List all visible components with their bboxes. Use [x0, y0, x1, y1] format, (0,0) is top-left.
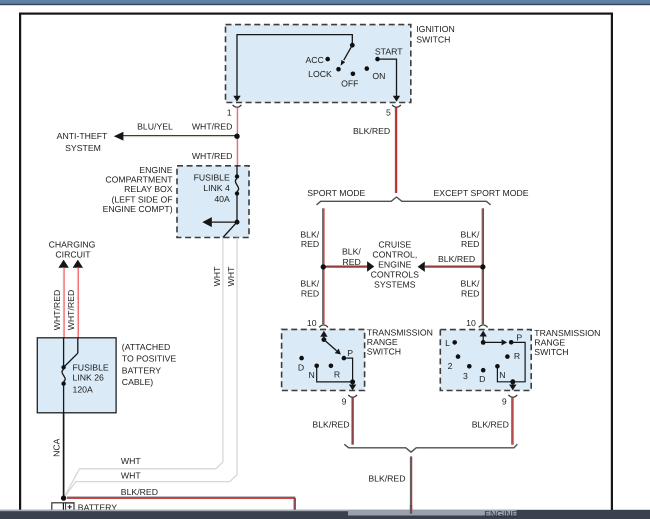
- transmission range switch S2 box: [440, 330, 531, 391]
- svg-text:ACC: ACC: [305, 55, 323, 65]
- terminal 10 left connector: [319, 325, 328, 327]
- node battery junction: [61, 495, 66, 500]
- contact N right: [495, 364, 500, 369]
- svg-text:2: 2: [448, 361, 453, 371]
- terminal 9 left connector: [348, 395, 357, 397]
- ignition lever: [344, 45, 353, 60]
- fusible link 26 box: [37, 338, 116, 413]
- wire BLK/RED sport left: [322, 208, 324, 324]
- fusible link 4 element: [236, 166, 238, 175]
- svg-text:(ATTACHED: (ATTACHED: [122, 342, 170, 352]
- contact ON: [365, 66, 370, 71]
- svg-text:D: D: [479, 374, 485, 384]
- svg-text:LINK 4: LINK 4: [203, 183, 230, 193]
- wire BLK/RED terminal 9 left: [351, 398, 353, 445]
- contact 2 right: [456, 354, 461, 359]
- svg-text:WHT: WHT: [226, 266, 236, 286]
- svg-text:RED: RED: [461, 239, 479, 249]
- lever right switch: [483, 341, 502, 343]
- wire WHT/RED charging 2: [76, 268, 78, 338]
- svg-text:R: R: [334, 369, 340, 379]
- svg-text:TRANSMISSION: TRANSMISSION: [367, 327, 433, 337]
- node fusible4 junction: [235, 220, 240, 225]
- contact L right: [452, 340, 457, 345]
- svg-text:CHARGING: CHARGING: [49, 240, 96, 250]
- wire WHT/RED terminal1 to fusible link 4: [235, 108, 237, 166]
- svg-text:P: P: [516, 332, 522, 342]
- svg-text:L: L: [445, 338, 450, 348]
- node sport left: [321, 264, 326, 269]
- arrow branch to other circuits: [209, 221, 237, 223]
- svg-text:9: 9: [502, 397, 507, 407]
- contact ACC: [325, 57, 330, 62]
- svg-text:WHT/RED: WHT/RED: [52, 290, 62, 331]
- wire WHT/RED charging 1: [62, 268, 64, 338]
- terminal 10 right connector: [479, 325, 488, 327]
- contact 3 right: [467, 364, 472, 369]
- svg-text:SPORT MODE: SPORT MODE: [307, 188, 365, 198]
- svg-text:BLK/: BLK/: [300, 279, 319, 289]
- svg-text:CIRCUIT: CIRCUIT: [55, 250, 91, 260]
- contact D left: [299, 356, 304, 361]
- svg-text:EXCEPT SPORT MODE: EXCEPT SPORT MODE: [434, 188, 529, 198]
- engine control box top edge: [348, 510, 517, 516]
- svg-text:IGNITION: IGNITION: [416, 24, 455, 34]
- transmission range switch S1 box: [282, 329, 365, 390]
- wire BLK/RED sport right: [481, 208, 483, 324]
- contact OFF: [351, 72, 356, 77]
- wire N to junction right: [497, 369, 512, 382]
- svg-text:ANTI-THEFT: ANTI-THEFT: [57, 131, 108, 141]
- svg-text:TRANSMISSION: TRANSMISSION: [534, 328, 600, 338]
- wire BLK/RED terminal 9 right: [511, 398, 513, 445]
- top window bar: [0, 0, 650, 4]
- svg-text:COMPARTMENT: COMPARTMENT: [105, 174, 173, 184]
- terminal 9 right connector: [508, 395, 517, 397]
- svg-text:ENGINE: ENGINE: [484, 509, 518, 519]
- svg-text:BLK/: BLK/: [461, 279, 480, 289]
- svg-text:1: 1: [227, 107, 232, 117]
- fusible link 4 box: [177, 166, 249, 238]
- svg-text:FUSIBLE: FUSIBLE: [73, 363, 109, 373]
- battery B1: [52, 503, 74, 519]
- svg-text:BLK/RED: BLK/RED: [312, 420, 349, 430]
- svg-text:CABLE): CABLE): [122, 377, 153, 387]
- svg-text:CRUISE: CRUISE: [378, 240, 411, 250]
- svg-text:RED: RED: [301, 239, 319, 249]
- contact P left: [342, 356, 347, 361]
- svg-text:D: D: [298, 363, 304, 373]
- svg-text:(LEFT SIDE OF: (LEFT SIDE OF: [111, 194, 172, 204]
- svg-text:CONTROL,: CONTROL,: [372, 250, 417, 260]
- pivot right switch: [481, 340, 486, 345]
- node junction right switch: [510, 379, 515, 384]
- wire BLK/RED battery to engine box: [67, 496, 295, 498]
- node sport right: [480, 264, 485, 269]
- svg-text:RED: RED: [301, 288, 319, 298]
- svg-text:3: 3: [463, 371, 468, 381]
- svg-text:SYSTEMS: SYSTEMS: [374, 280, 416, 290]
- wire P to junction right: [513, 342, 525, 381]
- contact N left: [314, 364, 319, 369]
- wire P to junction left: [346, 358, 352, 382]
- wire WHT A: [64, 238, 223, 498]
- bottom combiner brace: [344, 444, 517, 452]
- svg-text:OFF: OFF: [341, 78, 358, 88]
- arrow up to charging circuit 2: [73, 260, 83, 268]
- arrow down at terminal 1: [233, 96, 240, 102]
- svg-text:BLK/: BLK/: [342, 246, 361, 256]
- svg-text:P: P: [347, 348, 353, 358]
- svg-text:R: R: [514, 351, 520, 361]
- svg-text:NCA: NCA: [51, 438, 61, 457]
- svg-text:120A: 120A: [73, 384, 93, 394]
- arrow up to charging circuit 1: [58, 260, 68, 268]
- contact LOCK: [336, 67, 341, 72]
- svg-text:10: 10: [307, 318, 317, 328]
- svg-text:WHT/RED: WHT/RED: [192, 122, 233, 132]
- svg-text:CONTROLS: CONTROLS: [371, 270, 419, 280]
- svg-text:SWITCH: SWITCH: [534, 347, 568, 357]
- sport mode brace: [317, 197, 491, 205]
- wire: START contact to terminal 5: [380, 59, 397, 96]
- svg-text:10: 10: [466, 318, 476, 328]
- svg-text:SYSTEM: SYSTEM: [65, 143, 101, 153]
- wire N to junction left: [317, 368, 353, 382]
- svg-text:FUSIBLE: FUSIBLE: [194, 172, 230, 182]
- svg-text:BLK/RED: BLK/RED: [472, 420, 509, 430]
- node junction terminal1/blu-yel: [234, 134, 239, 139]
- arrow up terminal 10 left: [323, 336, 325, 340]
- svg-text:N: N: [308, 370, 314, 380]
- svg-text:40A: 40A: [214, 194, 230, 204]
- terminal 5 connector: [392, 105, 401, 107]
- contact D right: [481, 368, 486, 373]
- svg-text:WHT/RED: WHT/RED: [192, 151, 233, 161]
- svg-text:SWITCH: SWITCH: [416, 34, 450, 44]
- svg-text:WHT/RED: WHT/RED: [66, 290, 76, 331]
- svg-text:LOCK: LOCK: [308, 69, 332, 79]
- wire BLK/RED ignition terminal 5: [394, 108, 396, 193]
- fusible link 26 element: [63, 338, 65, 366]
- svg-text:9: 9: [342, 396, 347, 406]
- wire WHT B: [64, 238, 237, 498]
- svg-text:BLU/YEL: BLU/YEL: [137, 122, 173, 132]
- svg-text:RELAY BOX: RELAY BOX: [124, 184, 173, 194]
- contact R left: [329, 364, 334, 369]
- svg-text:START: START: [375, 46, 403, 56]
- svg-text:SWITCH: SWITCH: [367, 347, 401, 357]
- svg-text:BLK/RED: BLK/RED: [438, 254, 475, 264]
- svg-text:RED: RED: [342, 257, 360, 267]
- wire diagonal in fusible4 box: [223, 222, 237, 237]
- svg-text:ENGINE COMPT): ENGINE COMPT): [103, 204, 173, 214]
- svg-text:BATTERY: BATTERY: [122, 365, 161, 375]
- contact P right: [509, 340, 514, 345]
- svg-text:BLK/RED: BLK/RED: [368, 473, 405, 483]
- svg-text:ENGINE: ENGINE: [378, 260, 412, 270]
- svg-text:WHT: WHT: [121, 456, 141, 466]
- svg-text:ON: ON: [372, 71, 385, 81]
- wire BLK/RED arrow to cruise right: [425, 265, 480, 267]
- wire BLK/RED arrow to cruise left: [326, 265, 368, 267]
- pivot left switch: [322, 337, 327, 342]
- svg-text:RANGE: RANGE: [367, 337, 398, 347]
- contact R right: [505, 354, 510, 359]
- arrow to anti-theft system: [114, 132, 124, 141]
- wire BLK/RED to engine below: [409, 456, 411, 511]
- arrow up terminal 10 right: [482, 336, 484, 343]
- svg-text:BLK/RED: BLK/RED: [121, 487, 158, 497]
- svg-text:LINK 26: LINK 26: [73, 373, 105, 383]
- svg-text:RANGE: RANGE: [534, 338, 565, 348]
- contact START: [375, 57, 380, 62]
- svg-text:5: 5: [386, 107, 391, 117]
- arrow down terminal 9 right: [512, 382, 514, 385]
- svg-text:ENGINE: ENGINE: [139, 165, 173, 175]
- wire BLK/RED crossing engine band: [409, 505, 411, 514]
- arrow down at terminal 5: [393, 96, 400, 102]
- ignition rotor pivot: [350, 43, 355, 48]
- svg-text:BLK/RED: BLK/RED: [353, 126, 390, 136]
- lever left switch: [324, 340, 337, 351]
- wire NCA battery feed: [63, 413, 65, 498]
- wire BLU/YEL to anti-theft: [123, 135, 235, 137]
- svg-text:TO POSITIVE: TO POSITIVE: [122, 354, 177, 364]
- node junction left switch: [350, 379, 355, 384]
- svg-text:N: N: [499, 370, 505, 380]
- ignition switch U1 box: [226, 25, 411, 103]
- svg-text:WHT: WHT: [212, 266, 222, 286]
- terminal 1 connector: [233, 105, 242, 107]
- svg-text:WHT: WHT: [121, 470, 141, 480]
- arrow down terminal 9 left: [352, 382, 354, 385]
- svg-text:RED: RED: [461, 288, 479, 298]
- wire: ignition internal to terminal 1: [237, 35, 352, 97]
